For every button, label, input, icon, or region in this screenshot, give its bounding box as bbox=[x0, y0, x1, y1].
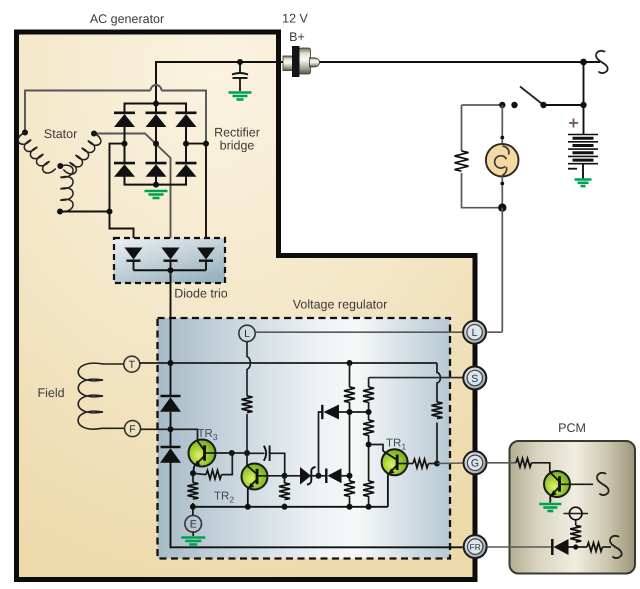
wire B+ to battery/switch run bbox=[318, 61, 600, 63]
diode bridge lower D6 bbox=[176, 163, 197, 177]
battery minus sign bbox=[568, 168, 577, 170]
wire phase1 jog down to diode trio bbox=[110, 212, 134, 248]
stator coil right arm bbox=[60, 133, 106, 177]
node top bus to B+ bbox=[153, 101, 159, 107]
node stator bottom bbox=[57, 209, 63, 215]
node TR3 base corner bbox=[229, 450, 235, 456]
svg-text:Voltage regulator: Voltage regulator bbox=[293, 298, 388, 312]
terminal E bbox=[192, 507, 194, 516]
transistor TR2 bbox=[242, 453, 285, 507]
svg-text:FR: FR bbox=[470, 542, 481, 552]
wire phase1 up to bridge bbox=[110, 144, 125, 212]
wire switch to battery bbox=[544, 104, 584, 106]
svg-text:Field: Field bbox=[37, 386, 64, 400]
terminal F bbox=[125, 421, 141, 437]
switch blade bbox=[520, 87, 544, 106]
sensor circle component bbox=[564, 507, 589, 525]
wire lamp bottom lead bbox=[501, 177, 503, 208]
wire-break squiggle at B+ run end bbox=[596, 51, 608, 73]
diode chain lower bbox=[160, 447, 181, 463]
wire zener node up to sense row bbox=[319, 412, 323, 476]
stator coil bottom leg bbox=[60, 165, 73, 212]
field coil bbox=[78, 363, 103, 429]
diode bridge lower D5 bbox=[146, 163, 167, 177]
ground below PCM transistor bbox=[539, 504, 561, 511]
inner terminal L bbox=[239, 325, 255, 341]
wire phase3 down to diode trio bbox=[205, 144, 207, 248]
transistor TR3 bbox=[189, 440, 232, 474]
ground below battery bbox=[575, 180, 592, 187]
terminal G (outer) bbox=[464, 451, 487, 474]
wire lamp top lead bbox=[501, 105, 503, 144]
wire down to FR run bbox=[171, 463, 463, 548]
AC generator housing box bbox=[17, 32, 476, 580]
squiggle PCM FR output bbox=[610, 536, 622, 558]
terminal L (outer) bbox=[463, 321, 486, 344]
wire lamp-resistor top run bbox=[462, 104, 503, 106]
node lamp branch bbox=[499, 102, 505, 108]
wire stator bottom phase bbox=[60, 211, 110, 213]
wire B+ output (y=62) bbox=[156, 62, 283, 104]
diode D2 on sense row bbox=[322, 405, 368, 420]
wire stator left phase to top run (gray) with hop bbox=[25, 91, 151, 133]
svg-text:PCM: PCM bbox=[558, 421, 586, 435]
wire battery drop bbox=[583, 62, 585, 134]
wire L terminal to lamp junction bbox=[486, 331, 502, 333]
node sensor-FR junction bbox=[573, 544, 578, 549]
wire F into regulator (field drive) bbox=[141, 429, 198, 441]
ground bus bbox=[193, 506, 388, 508]
rectifier bridge column stubs bbox=[125, 104, 187, 185]
capacitor between TR2 collector node and base node bbox=[247, 446, 285, 476]
node TR2 base bbox=[282, 473, 288, 479]
node lamp bottom junction bbox=[498, 204, 506, 212]
node T junction on trio feed bbox=[168, 360, 174, 366]
resistor in lamp branch bbox=[455, 151, 469, 171]
diode chain upper (on field feed line) bbox=[160, 396, 181, 429]
wire bridge right node to phase3 bbox=[186, 143, 206, 145]
node B+ run junction bbox=[580, 59, 587, 66]
wire TR3 base to junction bbox=[232, 452, 247, 454]
indicator lamp bbox=[486, 144, 519, 177]
diode bridge upper D1 bbox=[114, 113, 135, 127]
wire G terminal to PCM bbox=[487, 462, 517, 464]
diode bridge lower D4 bbox=[114, 163, 135, 177]
wire resistor to TR2 collector node bbox=[246, 414, 248, 453]
svg-text:S: S bbox=[471, 373, 478, 385]
svg-text:12 V: 12 V bbox=[282, 12, 308, 26]
wire trio feed continues down bbox=[170, 363, 172, 396]
svg-text:G: G bbox=[471, 458, 479, 470]
switch pivot bbox=[540, 102, 546, 108]
resistor TR3 emitter to ground bus bbox=[192, 473, 194, 482]
zener diode (right of TR2 base) bbox=[285, 467, 319, 485]
svg-text:L: L bbox=[244, 328, 250, 340]
capacitor C (noise suppressor) bbox=[232, 62, 248, 91]
switch open terminal bbox=[511, 102, 517, 108]
resistor PCM FR output bbox=[587, 543, 603, 552]
wire resistor branch (left of lamp) bbox=[461, 105, 463, 151]
diode trio D3 bbox=[197, 248, 215, 271]
diode trio D2 bbox=[162, 248, 180, 271]
resistor L chain bbox=[242, 396, 253, 413]
node stator left arm top bbox=[22, 130, 28, 136]
svg-text:L: L bbox=[472, 327, 478, 339]
node phase3 bbox=[203, 141, 209, 147]
node TR2 collector junction bbox=[244, 450, 250, 456]
wire trio output down into regulator bbox=[170, 270, 172, 363]
node battery top junction bbox=[580, 102, 586, 108]
PCM module box bbox=[510, 441, 636, 574]
wire inner L to outer L terminal bbox=[255, 331, 463, 333]
divider chain A (from T line) bbox=[344, 360, 355, 507]
svg-text:T: T bbox=[129, 359, 136, 371]
diode trio D1 bbox=[125, 248, 143, 271]
node stator right arm top bbox=[91, 131, 97, 137]
node phase1 junction bbox=[107, 209, 113, 215]
divider chain B (from S line) bbox=[363, 378, 374, 507]
battery plus sign bbox=[569, 119, 578, 128]
svg-text:B+: B+ bbox=[289, 30, 305, 44]
diode trio box bbox=[114, 238, 225, 283]
wire L chain down with hop over T line bbox=[247, 342, 250, 396]
resistor below sensor bbox=[570, 526, 581, 543]
svg-text:Stator: Stator bbox=[44, 127, 77, 141]
node capacitor junction bbox=[237, 59, 243, 65]
node TR3 emitter bbox=[190, 470, 196, 476]
svg-text:F: F bbox=[129, 423, 135, 435]
stator coil left arm bbox=[13, 132, 59, 176]
terminal T bbox=[124, 356, 140, 372]
ground below E bbox=[192, 532, 194, 536]
wire S terminal into regulator with hop bbox=[369, 377, 464, 379]
node G junction bbox=[434, 461, 440, 467]
node F junction bbox=[168, 426, 174, 432]
wire battery to ground bbox=[582, 164, 584, 179]
wire G junction to G terminal bbox=[437, 462, 464, 465]
resistor TR3 emitter-base feedback (horizontal) bbox=[193, 453, 232, 479]
diode trio output bus bbox=[134, 269, 207, 271]
wire FR terminal into PCM bbox=[487, 546, 552, 548]
wire to PCM transistor bbox=[532, 463, 550, 472]
node bottom bus ground bbox=[153, 182, 159, 188]
voltage regulator box bbox=[158, 318, 451, 559]
transistor PCM driver bbox=[544, 471, 593, 503]
node zener output bbox=[316, 473, 322, 479]
resistor TR1 base to G bbox=[413, 459, 429, 468]
diode PCM FR bbox=[552, 539, 587, 555]
bridge bottom bus bbox=[124, 184, 188, 186]
svg-text:AC generator: AC generator bbox=[90, 12, 164, 26]
resistor TR2 base to bus bbox=[279, 476, 290, 507]
node trio output bbox=[168, 267, 174, 273]
wire stator right phase (gray diagonal) to diode trio column bbox=[94, 134, 171, 248]
terminal S (outer) bbox=[463, 367, 486, 390]
wire to lower diode bbox=[170, 429, 172, 447]
wire field bottom to F bbox=[101, 427, 125, 429]
diode D3 to divider bbox=[319, 468, 350, 483]
svg-text:Diode trio: Diode trio bbox=[174, 287, 228, 301]
terminal FR (outer) bbox=[464, 535, 487, 558]
diode bridge upper D3 bbox=[176, 113, 197, 127]
battery cells bbox=[568, 135, 598, 164]
diode bridge upper D2 bbox=[146, 113, 167, 127]
squiggle PCM transistor output bbox=[597, 473, 609, 495]
bus junction nodes bbox=[190, 504, 196, 510]
ground below bridge bbox=[145, 191, 168, 198]
svg-text:E: E bbox=[190, 519, 197, 531]
B+ terminal connector bbox=[283, 46, 320, 77]
wire field top to T bbox=[102, 363, 124, 365]
node stator wye center bbox=[57, 163, 63, 169]
transistor TR1 bbox=[369, 445, 413, 507]
bridge middle nodes bbox=[122, 141, 128, 147]
rectifier bridge top bus bbox=[124, 103, 188, 105]
svg-text:Rectifier: Rectifier bbox=[214, 126, 260, 140]
svg-text:bridge: bridge bbox=[220, 139, 255, 153]
ground below capacitor bbox=[229, 93, 252, 100]
sense resistor chain to G (from T line corner) bbox=[432, 363, 443, 464]
wire T into regulator (tachometer line) bbox=[140, 362, 437, 364]
resistor PCM G input bbox=[516, 458, 532, 467]
wire junction down to L terminal bbox=[501, 208, 503, 332]
